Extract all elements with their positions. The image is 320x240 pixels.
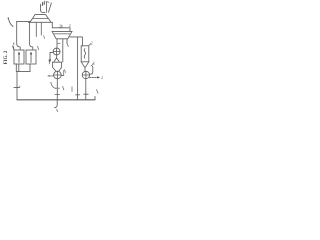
svg-text:2: 2 xyxy=(101,75,103,80)
svg-text:2: 2 xyxy=(93,61,95,66)
svg-text:2: 2 xyxy=(69,23,71,28)
svg-text:2: 2 xyxy=(91,40,93,45)
svg-text:FIG. 2: FIG. 2 xyxy=(4,50,9,64)
svg-text:2: 2 xyxy=(59,24,61,29)
